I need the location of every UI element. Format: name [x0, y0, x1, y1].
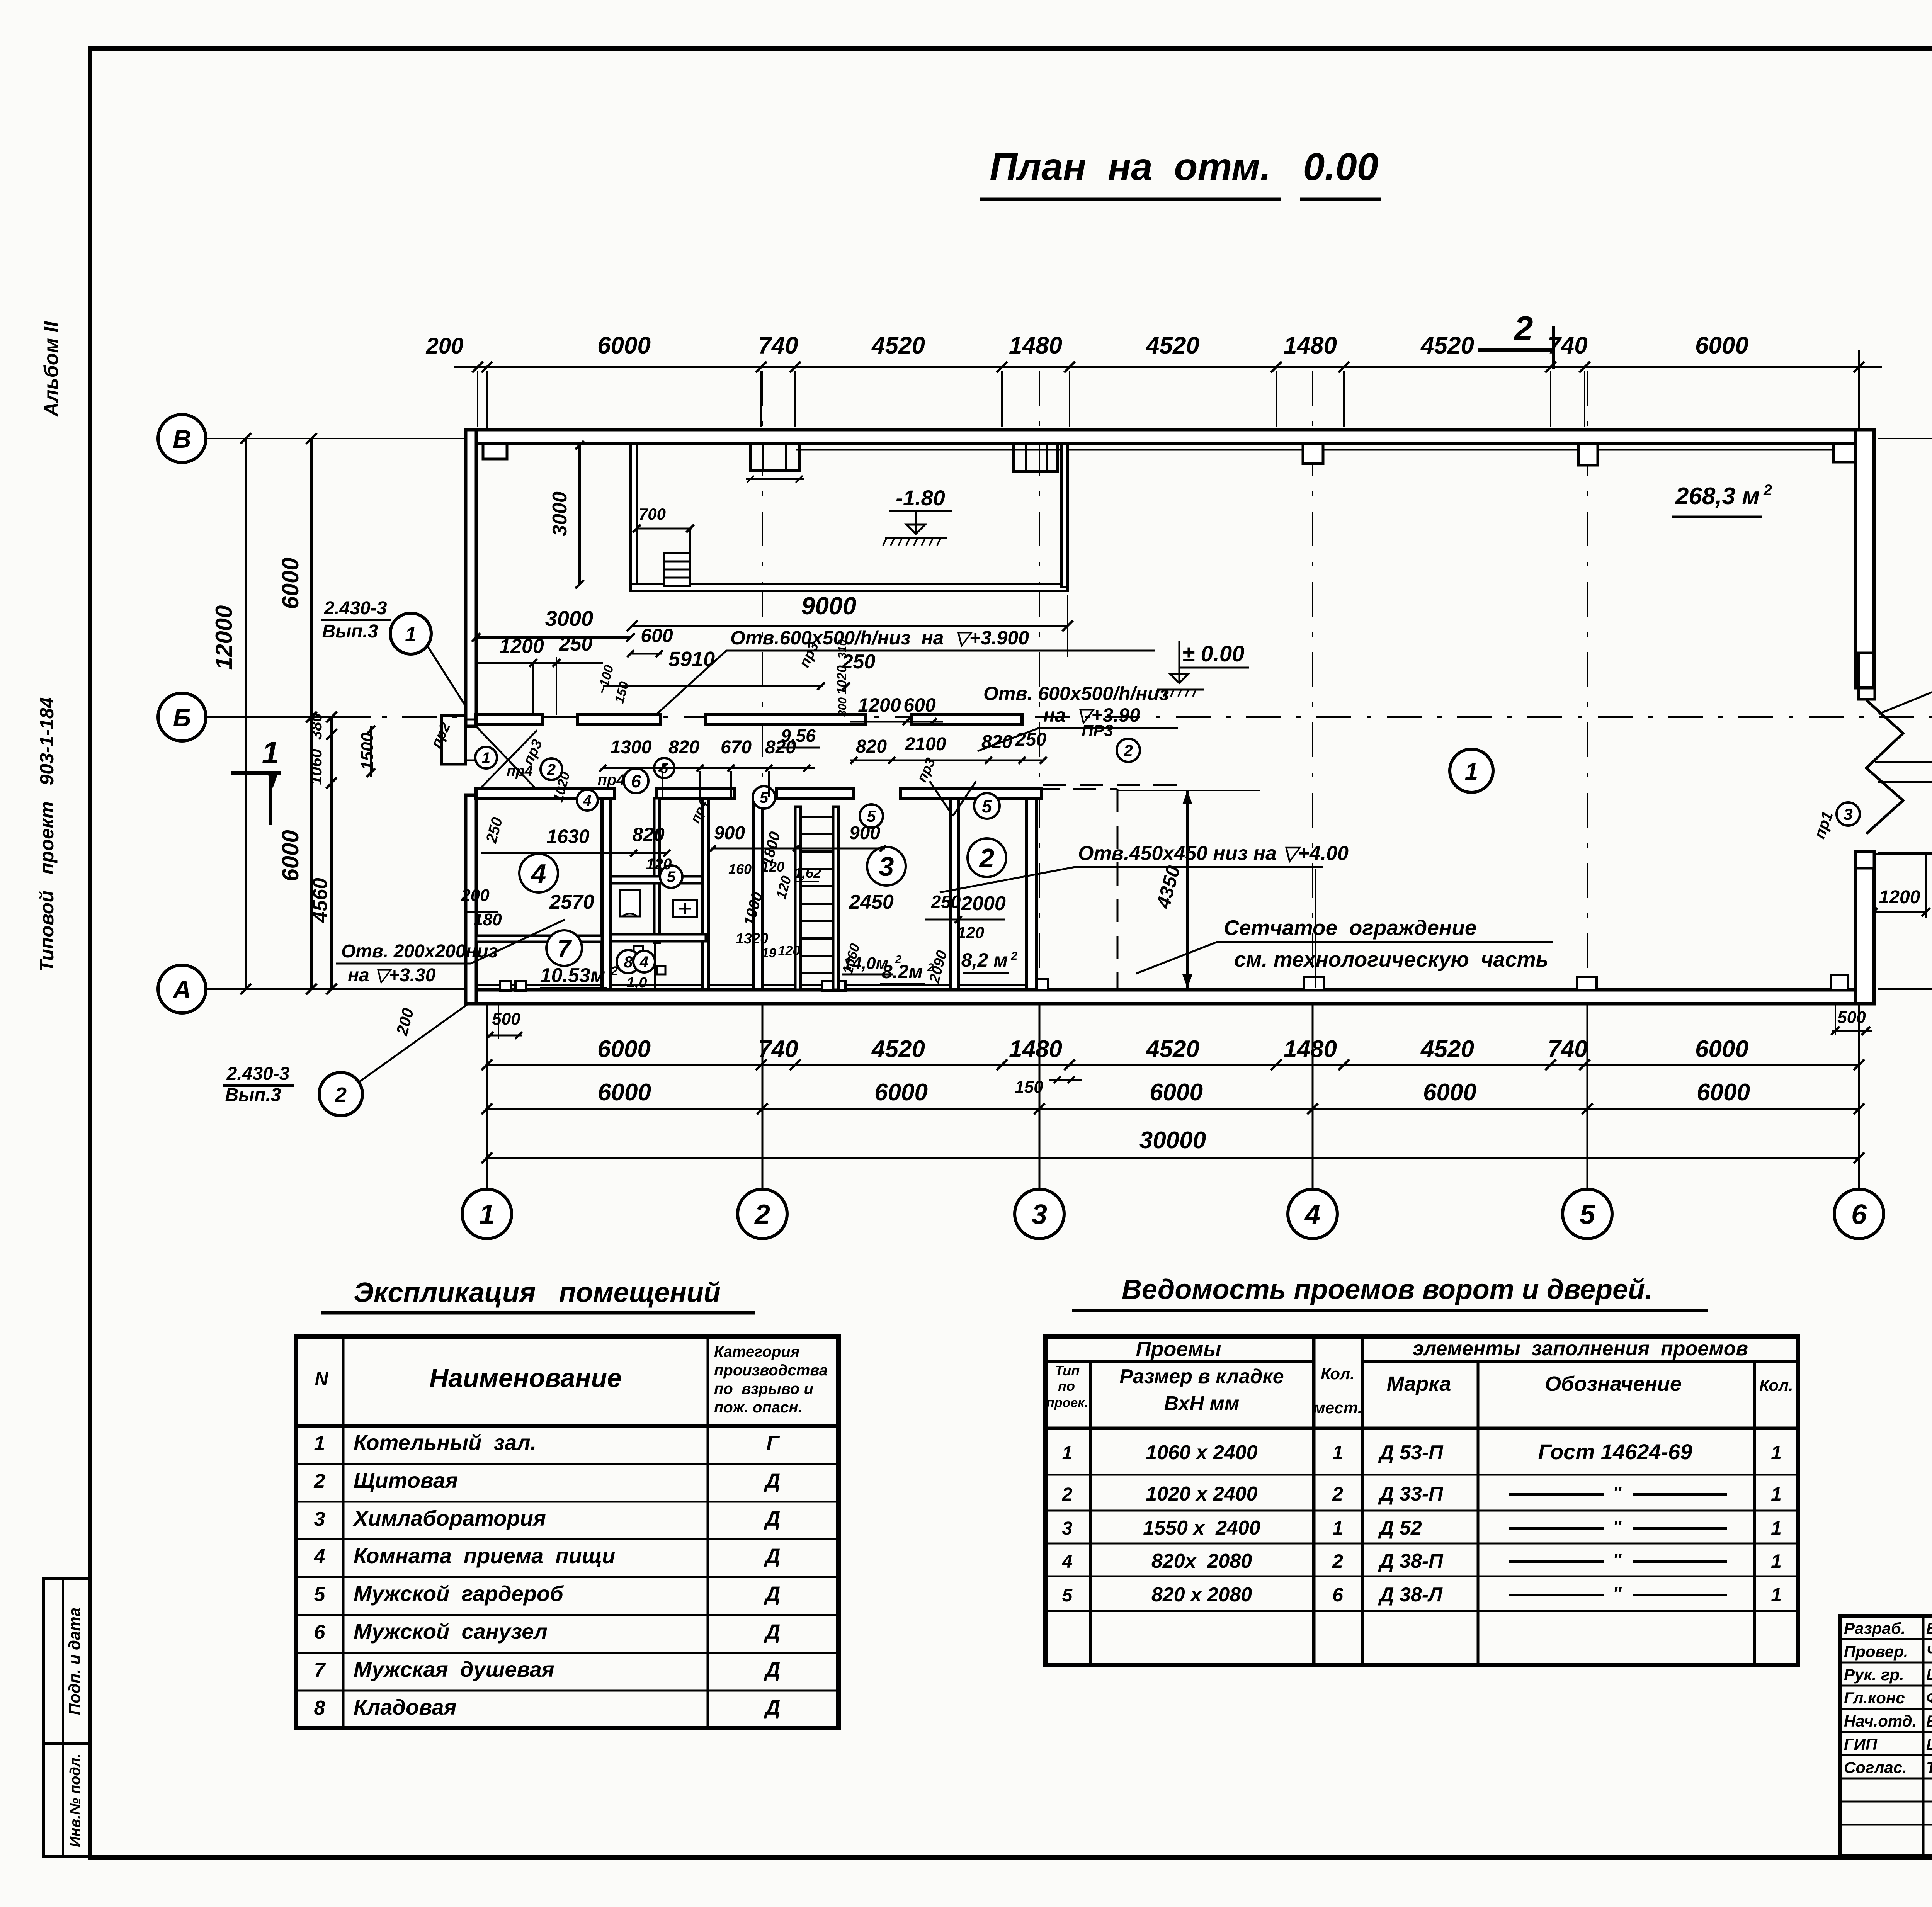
grid bubble 6 [1834, 1189, 1884, 1239]
pit stairs [664, 553, 690, 586]
room tag 2 [541, 758, 562, 780]
left entrance porch [442, 716, 476, 764]
grid bubble 4 [1288, 1189, 1337, 1239]
svg-text:Мужской гардероб: Мужской гардероб [354, 1581, 564, 1606]
svg-text:Д: Д [764, 1620, 781, 1644]
room tag 1 [475, 747, 497, 768]
room 5 dims [741, 830, 902, 976]
stamp box Инв. № подл. [43, 1743, 90, 1857]
bottom dimension chain row 1 [481, 1036, 1864, 1096]
svg-text:Д: Д [764, 1507, 781, 1530]
svg-text:2000: 2000 [961, 892, 1006, 915]
svg-text:6000: 6000 [277, 557, 303, 609]
svg-text:1320: 1320 [736, 931, 769, 947]
svg-text:1: 1 [262, 735, 279, 770]
svg-text:3: 3 [1032, 1199, 1047, 1230]
svg-text:пр4: пр4 [597, 772, 625, 789]
dimension 5910 [603, 648, 875, 690]
svg-text:3000: 3000 [545, 606, 594, 631]
grid bubble Б left [158, 693, 206, 741]
svg-text:4520: 4520 [1420, 332, 1474, 359]
svg-text:Бирюков: Бирюков [1926, 1712, 1932, 1730]
explication table heading [321, 1277, 755, 1313]
svg-text:А: А [172, 975, 191, 1004]
dimension 500 bottom left [393, 1004, 522, 1039]
stair enclosure east [833, 807, 838, 990]
svg-text:6000: 6000 [1697, 1079, 1750, 1106]
svg-text:1480: 1480 [1284, 1036, 1337, 1062]
svg-text:элементы заполнения проемов: элементы заполнения проемов [1413, 1338, 1748, 1360]
right entrance porch [1855, 653, 1875, 699]
svg-text:670: 670 [721, 737, 752, 758]
svg-text:500: 500 [1837, 1008, 1866, 1027]
grid line Б [191, 716, 1932, 718]
svg-text:2: 2 [1514, 309, 1533, 347]
stair enclosure west [795, 807, 801, 990]
svg-text:1: 1 [1771, 1483, 1782, 1505]
svg-text:± 0.00: ± 0.00 [1182, 641, 1245, 666]
note Отв.600х500 упper [657, 627, 1155, 714]
svg-text:5: 5 [982, 796, 992, 816]
svg-text:3: 3 [1844, 805, 1852, 823]
svg-text:1: 1 [405, 623, 417, 646]
svg-text:Д 38-Л: Д 38-Л [1378, 1584, 1443, 1606]
right entrance dimension 500 [1831, 1004, 1872, 1035]
pit right wall [1061, 444, 1068, 587]
svg-text:5: 5 [1062, 1585, 1073, 1606]
dimension 600 [627, 625, 673, 657]
door mark пр1 circle 3 [1811, 802, 1860, 841]
svg-text:6000: 6000 [1150, 1079, 1203, 1106]
svg-text:2: 2 [547, 761, 556, 778]
svg-text:4: 4 [314, 1545, 325, 1568]
svg-text:6000: 6000 [597, 1036, 651, 1062]
svg-text:Черняховская: Черняховская [1926, 1642, 1932, 1661]
room 2 dims [925, 892, 1006, 985]
svg-text:250: 250 [1015, 729, 1046, 750]
reference label 2.430-3 top left [321, 598, 471, 714]
svg-text:1060: 1060 [307, 749, 325, 785]
room 6 dims [710, 823, 886, 882]
svg-text:Инв.№ подл.: Инв.№ подл. [67, 1754, 83, 1847]
svg-text:Типовой проект 903-1-184: Типовой проект 903-1-184 [36, 697, 58, 972]
svg-text:30000: 30000 [1139, 1127, 1206, 1154]
room tag 2 [1117, 739, 1140, 762]
svg-text:по взрыво и: по взрыво и [714, 1380, 813, 1397]
svg-text:Сетчатое ограждение: Сетчатое ограждение [1224, 916, 1476, 940]
room tag 4 [519, 854, 558, 892]
svg-text:Экспликация помещений: Экспликация помещений [354, 1277, 721, 1308]
svg-text:1200: 1200 [1879, 887, 1920, 908]
svg-text:150: 150 [1015, 1078, 1043, 1096]
svg-text:1: 1 [1465, 758, 1478, 785]
svg-text:ГИП: ГИП [1844, 1735, 1878, 1753]
svg-text:Виленская: Виленская [1926, 1619, 1932, 1637]
svg-text:см. технологическую часть: см. технологическую часть [1234, 947, 1548, 971]
svg-text:Размер в кладке: Размер в кладке [1119, 1365, 1284, 1388]
right entrance dimension chain 1420/1550/3030 [1878, 712, 1932, 994]
pit bottom wall [631, 584, 1068, 591]
svg-text:8.2м: 8.2м [882, 961, 923, 982]
pit level mark -1.80 [883, 486, 952, 546]
svg-text:4560: 4560 [309, 878, 332, 923]
grid bubble 5 [1563, 1189, 1612, 1239]
svg-text:2000: 2000 [1929, 789, 1932, 830]
svg-text:820: 820 [981, 732, 1012, 752]
partition room4 east [602, 798, 611, 990]
svg-text:″: ″ [1613, 1550, 1622, 1569]
pit left wall [631, 444, 637, 587]
svg-text:1480: 1480 [1284, 332, 1337, 359]
svg-text:Фаминский: Фаминский [1926, 1689, 1932, 1707]
dimension chain 1300 820 670 820 [599, 737, 815, 797]
svg-text:820 х 2080: 820 х 2080 [1151, 1584, 1252, 1606]
svg-text:820: 820 [856, 736, 887, 757]
svg-text:ПР3: ПР3 [1082, 721, 1113, 739]
room tag 5 [974, 793, 1000, 819]
svg-text:19: 19 [762, 946, 776, 960]
svg-text:1200: 1200 [499, 635, 544, 658]
svg-text:Кол.: Кол. [1321, 1365, 1355, 1383]
svg-text:на ▽+3.30: на ▽+3.30 [348, 965, 436, 986]
svg-text:Д 53-П: Д 53-П [1378, 1441, 1444, 1464]
svg-text:Проемы: Проемы [1136, 1338, 1221, 1361]
wc fixtures [620, 890, 697, 990]
svg-text:6000: 6000 [1695, 332, 1748, 359]
svg-text:2570: 2570 [549, 891, 594, 913]
dimension 1200 250 left [476, 633, 603, 715]
svg-text:4520: 4520 [1145, 1036, 1199, 1062]
svg-text:Мужской санузел: Мужской санузел [354, 1619, 548, 1644]
svg-text:3: 3 [314, 1508, 325, 1530]
svg-text:2: 2 [754, 1199, 770, 1230]
left dimension chain 6000/6000 [277, 433, 317, 994]
svg-text:740: 740 [758, 1036, 798, 1062]
dashed wall continuation right of corridor [1043, 784, 1184, 786]
svg-text:1500: 1500 [358, 733, 377, 770]
dimension 3000 pit offset [472, 606, 635, 642]
svg-text:5: 5 [314, 1583, 326, 1606]
right wall upper [1855, 430, 1874, 688]
dimension 4350 [1117, 790, 1260, 988]
room tag 3 [867, 847, 906, 886]
svg-text:Цыгрик: Цыгрик [1926, 1735, 1932, 1753]
note Отв.450х450 [940, 842, 1349, 892]
svg-text:Щитовая: Щитовая [354, 1468, 458, 1492]
note Отв 200х200 [336, 920, 565, 986]
svg-text:Мужская душевая: Мужская душевая [354, 1657, 554, 1681]
svg-text:5: 5 [1580, 1199, 1595, 1230]
room tag 4 [577, 790, 598, 811]
svg-text:Комната приема пищи: Комната приема пищи [354, 1543, 615, 1568]
svg-text:2: 2 [979, 843, 995, 873]
svg-text:6000: 6000 [598, 1079, 651, 1106]
svg-text:1: 1 [1771, 1584, 1782, 1606]
top wall [466, 430, 1874, 450]
svg-text:1060 х 2400: 1060 х 2400 [1146, 1441, 1257, 1464]
svg-text:820: 820 [765, 737, 796, 758]
door labels [428, 639, 1113, 825]
svg-text:6: 6 [631, 771, 641, 791]
partition room8 horizontal [611, 934, 706, 941]
svg-text:Вып.3: Вып.3 [225, 1085, 281, 1105]
dimension 1200 600 mid [850, 694, 943, 725]
svg-text:1: 1 [1771, 1517, 1782, 1539]
svg-text:7: 7 [557, 935, 572, 962]
left entrance door swing [476, 726, 539, 793]
openings table heading [1072, 1274, 1708, 1310]
room tag 4 [633, 951, 655, 972]
svg-text:8,2 м: 8,2 м [961, 949, 1008, 971]
svg-text:Д: Д [764, 1545, 781, 1568]
room tag 5 [753, 786, 775, 809]
svg-text:Д 38-П: Д 38-П [1378, 1550, 1444, 1572]
reference label 2.430-3 right [1879, 651, 1932, 714]
svg-text:3: 3 [1062, 1518, 1073, 1539]
svg-text:Г: Г [766, 1431, 780, 1455]
svg-text:пож. опасн.: пож. опасн. [714, 1399, 803, 1416]
pilasters bottom wall [500, 975, 1848, 991]
svg-text:4520: 4520 [871, 1036, 925, 1062]
svg-text:700: 700 [639, 505, 666, 523]
svg-text:2: 2 [314, 1470, 325, 1492]
svg-text:Д 33-П: Д 33-П [1378, 1483, 1444, 1505]
svg-text:900: 900 [714, 823, 745, 843]
svg-text:Альбом II: Альбом II [40, 321, 63, 417]
svg-text:по: по [1058, 1378, 1075, 1394]
svg-text:9000: 9000 [801, 592, 856, 620]
svg-text:1630: 1630 [546, 826, 589, 847]
svg-text:-1.80: -1.80 [896, 486, 945, 510]
pilaster grid 5 [1578, 444, 1598, 465]
svg-text:250: 250 [559, 633, 593, 655]
svg-text:900: 900 [849, 823, 880, 843]
pilaster grid 2 [746, 444, 804, 483]
grid line А [191, 988, 1932, 990]
svg-text:Б: Б [173, 703, 191, 732]
svg-text:2100: 2100 [905, 734, 946, 755]
svg-text:Гл.конс: Гл.конс [1844, 1689, 1905, 1707]
svg-text:1300: 1300 [611, 737, 652, 758]
svg-text:6: 6 [1332, 1584, 1344, 1606]
stair treads [801, 817, 833, 973]
svg-text:740: 740 [758, 332, 798, 359]
svg-text:1: 1 [1332, 1517, 1343, 1539]
svg-text:1480: 1480 [1009, 1036, 1062, 1062]
svg-text:120: 120 [646, 856, 672, 873]
title block [1840, 1616, 1932, 1857]
pit dimension 9000 [627, 592, 1073, 657]
svg-text:180: 180 [473, 910, 502, 929]
svg-text:пр4: пр4 [507, 763, 533, 779]
section mark 2 top [1478, 309, 1555, 369]
hall area 268,3 м2 [1672, 482, 1772, 517]
svg-text:4520: 4520 [871, 332, 925, 359]
svg-text:Д: Д [764, 1469, 781, 1492]
stamp box Подп. и дата [43, 1578, 90, 1743]
svg-text:Терехов: Терехов [1926, 1758, 1932, 1776]
partition room2 east wall [1027, 798, 1036, 990]
svg-text:2: 2 [1062, 1484, 1073, 1505]
grid bubble В left [158, 415, 206, 462]
svg-text:500: 500 [492, 1010, 520, 1028]
svg-text:820: 820 [632, 824, 665, 845]
svg-text:5910: 5910 [668, 648, 715, 671]
svg-text:Ведомость проемов ворот и двер: Ведомость проемов ворот и дверей. [1122, 1274, 1653, 1305]
svg-text:1,62: 1,62 [794, 865, 821, 881]
svg-text:820: 820 [668, 737, 699, 758]
grid line В [191, 438, 1932, 439]
svg-text:120: 120 [957, 923, 984, 942]
svg-text:Подп. и дата: Подп. и дата [65, 1608, 83, 1715]
svg-text:2: 2 [611, 964, 618, 978]
svg-text:6000: 6000 [1423, 1079, 1476, 1106]
room 4 dims [461, 816, 672, 929]
grid bubble 1 [462, 1189, 512, 1239]
svg-text:производства: производства [714, 1362, 828, 1379]
partition room5 west [753, 798, 763, 990]
svg-text:6000: 6000 [1695, 1036, 1748, 1062]
svg-text:Д: Д [764, 1658, 781, 1681]
svg-text:2: 2 [1763, 482, 1772, 499]
vertical grid extensions to bottom bubbles [487, 1004, 1859, 1188]
openings table [1045, 1336, 1798, 1665]
svg-text:2: 2 [1123, 741, 1133, 760]
extension line 450 note [1315, 869, 1316, 988]
svg-text:Кол.: Кол. [1759, 1376, 1793, 1394]
pit stairs dimension 700 [633, 505, 694, 552]
svg-text:План на отм.: План на отм. [990, 145, 1271, 189]
svg-text:200: 200 [426, 333, 464, 359]
grid bubble А left [158, 965, 206, 1013]
svg-text:600: 600 [641, 625, 673, 646]
drawing title План на отм. 0.00 [980, 145, 1381, 199]
svg-text:″: ″ [1613, 1517, 1622, 1536]
pilaster grid 3 [1014, 444, 1057, 471]
svg-text:4: 4 [583, 793, 591, 809]
svg-text:Отв. 200х200низ: Отв. 200х200низ [341, 941, 498, 962]
partition room4/7 divider [476, 936, 602, 942]
svg-text:Соглас.: Соглас. [1844, 1758, 1907, 1776]
svg-text:Марка: Марка [1387, 1372, 1451, 1395]
svg-text:2: 2 [1332, 1550, 1343, 1572]
door swing пр3 corridor right [914, 755, 976, 816]
svg-text:ВхН мм: ВхН мм [1164, 1392, 1240, 1415]
svg-text:проек.: проек. [1046, 1395, 1088, 1410]
svg-text:2: 2 [1332, 1483, 1343, 1505]
left wall lower [466, 795, 476, 1004]
svg-text:Категория: Категория [714, 1343, 799, 1360]
svg-text:Котельный зал.: Котельный зал. [354, 1430, 536, 1455]
svg-text:1: 1 [1771, 1550, 1782, 1572]
svg-text:″: ″ [1613, 1483, 1622, 1502]
svg-text:Д: Д [764, 1696, 781, 1719]
pilaster grid 4 [1303, 444, 1323, 464]
svg-text:Д: Д [764, 1582, 781, 1606]
svg-text:1: 1 [1771, 1442, 1782, 1463]
svg-text:1020 х 2400: 1020 х 2400 [1146, 1483, 1257, 1505]
corridor south wall [476, 789, 1041, 798]
svg-text:Отв.450х450 низ на ▽+4.00: Отв.450х450 низ на ▽+4.00 [1078, 842, 1349, 865]
svg-text:1,0: 1,0 [627, 975, 647, 991]
room tag 7 [546, 930, 582, 966]
section mark 1 left [231, 735, 281, 825]
svg-text:Тип: Тип [1055, 1363, 1080, 1378]
svg-text:5: 5 [867, 807, 876, 825]
left wall upper [466, 430, 476, 726]
svg-text:2.430-3: 2.430-3 [226, 1064, 290, 1084]
svg-text:8: 8 [314, 1697, 325, 1719]
svg-text:6: 6 [1851, 1199, 1867, 1230]
svg-text:6: 6 [314, 1621, 326, 1644]
svg-text:250: 250 [931, 892, 961, 912]
svg-text:N: N [315, 1369, 329, 1389]
svg-text:3000: 3000 [549, 491, 571, 536]
svg-text:6000: 6000 [277, 830, 303, 881]
svg-text:Провер.: Провер. [1844, 1642, 1908, 1661]
svg-text:160: 160 [728, 861, 752, 877]
svg-text:1550 х 2400: 1550 х 2400 [1143, 1517, 1260, 1539]
room tag 6 [624, 768, 648, 793]
area labels bottom strip [540, 931, 1018, 991]
svg-text:Отв.600х500/h/низ на ▽+3.900: Отв.600х500/h/низ на ▽+3.900 [730, 627, 1029, 649]
svg-text:2: 2 [927, 961, 934, 974]
room tag 8 [617, 950, 640, 973]
svg-text:4: 4 [1062, 1552, 1073, 1572]
svg-text:Гост 14624-69: Гост 14624-69 [1538, 1440, 1692, 1464]
svg-text:820х 2080: 820х 2080 [1151, 1550, 1252, 1572]
svg-text:250: 250 [842, 651, 876, 673]
room tag 1 [1450, 749, 1493, 792]
top dimension chain [426, 332, 1882, 427]
svg-text:7: 7 [314, 1659, 326, 1681]
right dimension chain 12000 [1878, 433, 1932, 994]
pit depth dimension 3000 vertical [549, 441, 584, 588]
svg-text:2.430-3: 2.430-3 [324, 598, 387, 619]
label 9.56 [777, 726, 820, 748]
svg-text:мест.: мест. [1313, 1399, 1362, 1417]
vertical grid centerlines [487, 371, 1859, 989]
left dimension chain 12000 [211, 433, 251, 994]
grid bubble 3 [1015, 1189, 1064, 1239]
bottom wall [466, 985, 1874, 1004]
svg-text:600: 600 [903, 694, 936, 716]
dimension 820 2100 820 250 right corridor [850, 729, 1047, 764]
bottom dimension chain row 3 30000 [481, 1127, 1864, 1163]
svg-text:Обозначение: Обозначение [1545, 1372, 1682, 1395]
svg-text:0.00: 0.00 [1303, 145, 1379, 189]
svg-text:200: 200 [461, 886, 490, 905]
reference label 2.430-3 bottom left [223, 1004, 468, 1116]
partition room3/2 divider [951, 798, 958, 990]
svg-text:4: 4 [639, 953, 648, 970]
partition sanuzel east [702, 798, 709, 990]
svg-text:4520: 4520 [1420, 1036, 1474, 1062]
svg-text:1: 1 [1062, 1443, 1073, 1463]
room tag 2 [968, 838, 1006, 877]
explication table [296, 1336, 838, 1728]
pilaster top wall left corner [483, 444, 507, 459]
svg-text:4520: 4520 [1145, 332, 1199, 359]
svg-text:В: В [173, 425, 191, 453]
svg-text:10.53м: 10.53м [540, 964, 605, 987]
mesh fence dashed [1036, 789, 1117, 990]
svg-text:Нач.отд.: Нач.отд. [1844, 1712, 1917, 1730]
level mark 0.00 [1156, 641, 1249, 697]
grid bubble 2 [738, 1189, 787, 1239]
svg-text:Вып.3: Вып.3 [322, 621, 378, 642]
svg-text:Наименование: Наименование [429, 1363, 622, 1393]
